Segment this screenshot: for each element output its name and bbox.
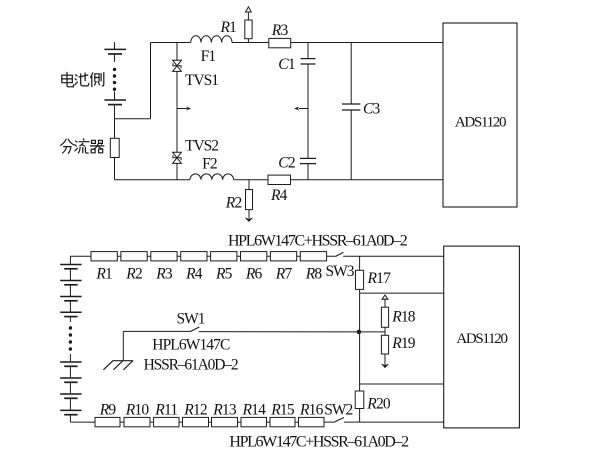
svg-text:HSSR–61A0D–2: HSSR–61A0D–2 <box>144 356 238 373</box>
svg-text:SW1: SW1 <box>177 311 205 328</box>
svg-text:ADS1120: ADS1120 <box>455 114 506 130</box>
svg-text:R11: R11 <box>154 402 177 419</box>
svg-text:R16: R16 <box>299 402 324 419</box>
svg-text:C3: C3 <box>363 100 381 117</box>
svg-text:SW2: SW2 <box>324 402 352 419</box>
svg-text:R4: R4 <box>185 265 203 282</box>
svg-text:F2: F2 <box>202 155 217 172</box>
svg-text:R15: R15 <box>270 402 295 419</box>
svg-text:R3: R3 <box>271 22 289 39</box>
svg-text:C2: C2 <box>278 155 295 172</box>
svg-text:R20: R20 <box>366 395 391 412</box>
svg-text:R13: R13 <box>212 402 237 419</box>
svg-text:R4: R4 <box>270 187 288 204</box>
svg-text:ADS1120: ADS1120 <box>456 331 507 347</box>
svg-text:R2: R2 <box>125 265 142 282</box>
svg-text:R3: R3 <box>155 265 173 282</box>
svg-text:R14: R14 <box>241 402 266 419</box>
svg-text:R1: R1 <box>95 265 112 282</box>
svg-text:C1: C1 <box>278 56 295 73</box>
svg-text:TVS1: TVS1 <box>185 72 218 89</box>
svg-text:HPL6W147C+HSSR–61A0D–2: HPL6W147C+HSSR–61A0D–2 <box>228 232 408 249</box>
svg-text:HPL6W147C: HPL6W147C <box>152 337 230 354</box>
svg-text:R12: R12 <box>183 402 207 419</box>
svg-text:R9: R9 <box>99 402 117 419</box>
svg-text:R2: R2 <box>225 194 242 211</box>
svg-text:R7: R7 <box>275 265 293 282</box>
svg-text:R18: R18 <box>391 308 416 325</box>
svg-text:R1: R1 <box>220 19 237 36</box>
svg-text:SW3: SW3 <box>326 263 355 280</box>
svg-text:F1: F1 <box>201 48 216 65</box>
svg-text:HPL6W147C+HSSR–61A0D–2: HPL6W147C+HSSR–61A0D–2 <box>229 434 409 450</box>
svg-text:R17: R17 <box>367 270 392 287</box>
svg-text:R8: R8 <box>305 265 323 282</box>
svg-text:R10: R10 <box>125 402 150 419</box>
svg-text:R5: R5 <box>215 265 233 282</box>
svg-text:R6: R6 <box>245 265 263 282</box>
svg-text:R19: R19 <box>391 335 416 352</box>
svg-text:TVS2: TVS2 <box>185 138 218 155</box>
